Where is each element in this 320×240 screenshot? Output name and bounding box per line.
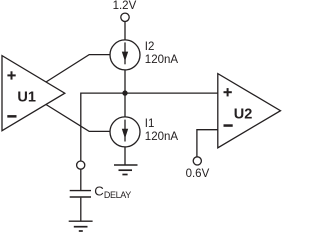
- terminal 1.2V: [121, 13, 129, 21]
- svg-text:120nA: 120nA: [145, 131, 179, 143]
- wire capacitor to ground: [80, 198, 82, 222]
- label I2 120nA: [145, 41, 179, 66]
- terminal 0.6V: [193, 157, 201, 165]
- wire I2 to node A: [124, 70, 126, 93]
- wire terminal to capacitor: [80, 169, 82, 190]
- svg-text:I2: I2: [145, 41, 155, 53]
- wire I1 to ground: [124, 147, 126, 165]
- wire node A to I1: [124, 93, 126, 117]
- svg-text:U2: U2: [234, 107, 253, 123]
- label I1 120nA: [145, 118, 179, 143]
- terminal on CDELAY branch: [77, 161, 85, 169]
- wire U1 lower edge to I1: [46, 105, 110, 132]
- ground (under CDELAY): [69, 221, 93, 231]
- wire U1 upper edge to I2: [46, 55, 110, 82]
- ground (under I1): [114, 165, 138, 175]
- svg-text:1.2V: 1.2V: [113, 0, 137, 12]
- op-amp U1: [2, 56, 65, 131]
- wire node A to capacitor branch: [81, 93, 125, 161]
- svg-text:0.6V: 0.6V: [186, 168, 210, 180]
- wire 1.2V terminal to I2: [124, 22, 126, 41]
- svg-text:120nA: 120nA: [145, 54, 179, 66]
- op-amp U2: [218, 74, 281, 148]
- wire node A to U2 + input: [125, 92, 218, 94]
- node A junction dot: [122, 90, 127, 95]
- current source I2: [110, 40, 140, 70]
- svg-text:CDELAY: CDELAY: [94, 183, 131, 200]
- svg-text:U1: U1: [17, 89, 36, 105]
- wire 0.6V terminal to U2 - input: [197, 130, 218, 157]
- current source I1: [110, 117, 140, 147]
- capacitor CDELAY: [70, 191, 91, 197]
- svg-text:I1: I1: [145, 118, 155, 130]
